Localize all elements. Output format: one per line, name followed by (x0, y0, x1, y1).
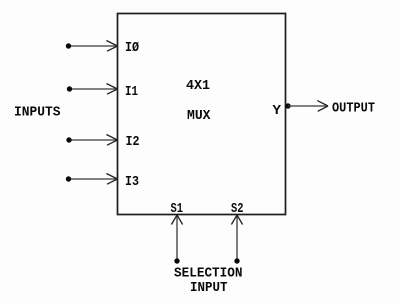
svg-text:INPUT: INPUT (190, 280, 228, 296)
svg-text:IØ: IØ (125, 40, 139, 56)
svg-text:S1: S1 (171, 201, 184, 217)
svg-text:S2: S2 (231, 201, 244, 217)
svg-text:4X1: 4X1 (186, 78, 210, 94)
svg-text:OUTPUT: OUTPUT (332, 101, 375, 117)
svg-text:INPUTS: INPUTS (14, 105, 61, 121)
svg-text:I1: I1 (125, 84, 138, 100)
svg-text:I2: I2 (126, 134, 140, 150)
svg-text:MUX: MUX (187, 108, 211, 124)
svg-text:Y: Y (273, 103, 282, 119)
svg-text:I3: I3 (125, 174, 139, 190)
